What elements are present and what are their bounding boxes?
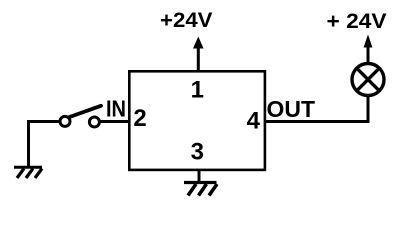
wire: left ground riser bbox=[27, 120, 30, 167]
svg-text:3: 3 bbox=[191, 139, 204, 166]
svg-text:4: 4 bbox=[247, 108, 261, 135]
wire: ground to switch bbox=[27, 120, 59, 123]
lamp DS1 bbox=[352, 64, 384, 96]
wire: switch to pin 2 bbox=[101, 120, 131, 123]
svg-text:+ 24V: + 24V bbox=[327, 10, 387, 33]
switch S1 (open) bbox=[60, 116, 70, 126]
wire: pin 1 stub to supply arrow bbox=[197, 44, 200, 73]
wire: pin 4 to lamp bbox=[264, 120, 370, 123]
svg-text:1: 1 bbox=[191, 77, 204, 104]
wire: lamp bottom lead bbox=[367, 96, 370, 124]
wire: lamp top lead to supply arrow bbox=[367, 43, 370, 64]
svg-text:IN: IN bbox=[106, 96, 126, 122]
arrow to +24V (top center) bbox=[193, 37, 204, 49]
svg-text:+24V: +24V bbox=[160, 9, 213, 32]
ground (bottom, pin 3) bbox=[184, 181, 217, 184]
relay/module box U1 bbox=[129, 71, 265, 170]
svg-text:OUT: OUT bbox=[267, 96, 316, 122]
ground (left) bbox=[14, 166, 42, 169]
wire: pin 3 stub bbox=[198, 169, 201, 182]
arrow to +24V (top right) bbox=[364, 35, 373, 48]
svg-text:2: 2 bbox=[133, 105, 146, 132]
